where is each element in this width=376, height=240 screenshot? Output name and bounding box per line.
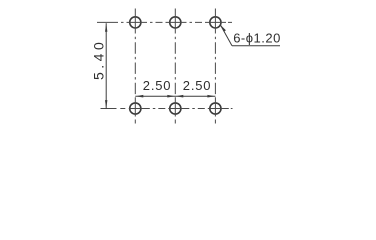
centerline horizontal bottom row bbox=[101, 108, 117, 110]
dimension 5.40 up arrowhead bbox=[105, 23, 107, 31]
centerline vertical column 1 bbox=[134, 9, 136, 124]
leader diagonal line bbox=[220, 25, 232, 46]
svg-text:2.50: 2.50 bbox=[143, 78, 172, 93]
hole H2 top-middle circle bbox=[170, 17, 181, 28]
leader horizontal underline bbox=[232, 45, 280, 47]
dimension 5.40 down arrowhead bbox=[105, 100, 107, 108]
dimension 2.50 middle left-pointing arrowhead bbox=[176, 95, 184, 98]
svg-text:2.50: 2.50 bbox=[183, 78, 212, 93]
dimension 2.50 line bbox=[135, 95, 215, 97]
dimension 2.50 middle right-pointing arrowhead bbox=[167, 95, 175, 98]
dimension 2.50 right arrowhead bbox=[207, 95, 215, 98]
hole H1 top-left circle bbox=[130, 17, 141, 28]
leader arrowhead at hole H3 bbox=[220, 25, 226, 32]
centerline vertical column 3 bbox=[214, 9, 216, 124]
svg-text:6-ϕ1.20: 6-ϕ1.20 bbox=[233, 30, 281, 45]
hole H4 bottom-left circle bbox=[130, 103, 141, 114]
hole H5 bottom-middle circle bbox=[170, 103, 181, 114]
hole H6 bottom-right circle bbox=[210, 103, 221, 114]
svg-text:5.40: 5.40 bbox=[91, 39, 107, 80]
centerline vertical column 2 bbox=[174, 9, 176, 124]
hole H3 top-right circle bbox=[210, 17, 221, 28]
dimension 2.50 left arrowhead bbox=[136, 95, 144, 98]
dimension 5.40 vertical line bbox=[105, 23, 107, 109]
centerline horizontal top row bbox=[97, 21, 118, 23]
